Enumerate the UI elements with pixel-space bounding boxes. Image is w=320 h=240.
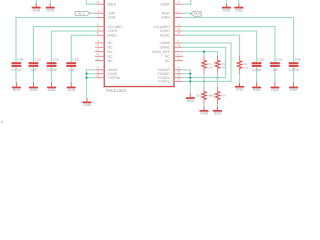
svg-text:C19: C19: [72, 57, 78, 61]
svg-text:3: 3: [177, 40, 179, 43]
svg-text:VCLAMPR: VCLAMPR: [153, 25, 170, 29]
svg-text:ROSC: ROSC: [160, 33, 170, 37]
svg-text:GND: GND: [187, 99, 195, 103]
svg-text:24: 24: [96, 1, 99, 4]
svg-text:25: 25: [177, 24, 180, 27]
svg-text:IN_L: IN_L: [78, 11, 85, 15]
svg-text:C29: C29: [53, 57, 59, 61]
svg-text:GND: GND: [253, 88, 261, 92]
svg-text:GND: GND: [33, 8, 41, 12]
svg-text:49: 49: [96, 75, 99, 78]
svg-text:C44: C44: [17, 57, 23, 61]
svg-text:47: 47: [177, 78, 180, 81]
svg-text:NC: NC: [108, 50, 113, 54]
svg-text:41: 41: [177, 67, 180, 70]
svg-text:11: 11: [96, 44, 99, 47]
svg-text:32: 32: [96, 71, 99, 74]
svg-text:AVDD: AVDD: [108, 33, 118, 37]
svg-text:5.6k: 5.6k: [221, 94, 226, 97]
svg-text:PGNDL: PGNDL: [158, 80, 170, 84]
svg-text:19: 19: [177, 44, 180, 47]
svg-text:0.47uF: 0.47uF: [11, 68, 22, 72]
svg-text:100k: 100k: [207, 67, 213, 70]
svg-text:GND: GND: [47, 8, 55, 12]
svg-text:1uF: 1uF: [69, 68, 75, 72]
svg-text:10: 10: [96, 24, 99, 27]
svg-text:RINN: RINN: [162, 16, 171, 20]
svg-text:9: 9: [98, 40, 100, 43]
svg-text:1: 1: [177, 10, 179, 13]
svg-text:VCLAMPL: VCLAMPL: [108, 25, 124, 29]
svg-text:NC: NC: [108, 59, 113, 63]
svg-text:THERM: THERM: [108, 76, 120, 80]
svg-text:33: 33: [177, 32, 180, 35]
svg-text:R30: R30: [196, 94, 201, 97]
svg-text:0.47uF: 0.47uF: [289, 68, 300, 72]
svg-text:21: 21: [96, 58, 99, 61]
svg-text:C30: C30: [35, 57, 41, 61]
svg-text:23: 23: [177, 58, 180, 61]
svg-text:GND: GND: [200, 112, 208, 116]
svg-text:C28: C28: [258, 57, 264, 61]
svg-text:LINN: LINN: [108, 16, 116, 20]
svg-text:31: 31: [177, 28, 180, 31]
svg-text:GND: GND: [48, 88, 56, 92]
svg-text:13: 13: [96, 49, 99, 52]
svg-text:1uF: 1uF: [272, 68, 278, 72]
svg-text:GND: GND: [235, 8, 243, 12]
svg-text:17: 17: [177, 1, 180, 4]
svg-text:GND: GND: [13, 88, 21, 92]
svg-text:15: 15: [96, 53, 99, 56]
svg-text:26: 26: [96, 32, 99, 35]
svg-text:220pF: 220pF: [252, 68, 262, 72]
svg-text:BSRP: BSRP: [161, 2, 171, 6]
svg-text:IN_R: IN_R: [194, 12, 202, 16]
svg-text:7: 7: [177, 49, 179, 52]
svg-text:TPA3118D2: TPA3118D2: [105, 88, 127, 93]
svg-text:100k: 100k: [243, 67, 249, 70]
svg-text:R32: R32: [210, 94, 215, 97]
svg-text:100k: 100k: [221, 67, 227, 70]
svg-text:1uF: 1uF: [31, 68, 37, 72]
svg-text:GND: GND: [83, 103, 91, 107]
svg-text:GND: GND: [271, 88, 279, 92]
svg-text:5: 5: [98, 10, 100, 13]
svg-text:30: 30: [96, 67, 99, 70]
svg-text:GND: GND: [30, 88, 38, 92]
svg-text:NC: NC: [165, 59, 170, 63]
svg-text:43: 43: [177, 71, 180, 74]
svg-text:4: 4: [98, 14, 100, 17]
svg-text:BSLP: BSLP: [108, 2, 117, 6]
svg-text:C26: C26: [276, 57, 282, 61]
svg-text:45: 45: [177, 75, 180, 78]
svg-text:C45: C45: [295, 57, 301, 61]
svg-text:8: 8: [98, 28, 100, 31]
svg-text:2: 2: [177, 14, 179, 17]
svg-text:GND: GND: [290, 88, 298, 92]
svg-text:GND: GND: [68, 88, 76, 92]
svg-text:GND: GND: [223, 8, 231, 12]
svg-text:AVDD_REF: AVDD_REF: [152, 50, 170, 54]
svg-text:0.47uF: 0.47uF: [47, 68, 58, 72]
svg-text:GND: GND: [236, 88, 244, 92]
svg-text:GND: GND: [214, 112, 222, 116]
svg-text:6: 6: [177, 53, 179, 56]
